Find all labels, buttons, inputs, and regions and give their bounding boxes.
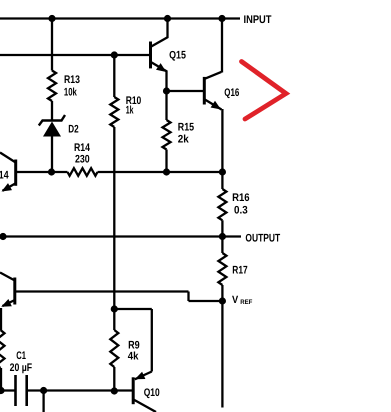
- svg-text:INPUT: INPUT: [244, 14, 272, 26]
- transistor Q14 base bar: [14, 160, 17, 186]
- node R9 top: [111, 305, 118, 312]
- transistor Q16 base bar: [203, 77, 206, 105]
- wire left resistor to bottom rail: [0, 368, 2, 391]
- resistor RL (partial at left edge): [0, 330, 5, 368]
- svg-text:0.3: 0.3: [234, 205, 248, 217]
- svg-text:V: V: [232, 294, 238, 306]
- transistor Q10 collector: [134, 400, 157, 412]
- resistor R13: [48, 71, 56, 102]
- capacitor C1 left plate: [14, 375, 17, 406]
- svg-text:Q16: Q16: [224, 87, 239, 99]
- wire W5 output rail: [0, 235, 222, 237]
- transistor Q14 emitter arrow: [2, 183, 13, 191]
- transistor Q16 collector: [205, 72, 222, 79]
- wire OUTPUT node to R17: [221, 237, 223, 254]
- wire Q14 base to node: [16, 171, 68, 173]
- resistor R17: [218, 253, 226, 285]
- wire bottom rail to Q10 base: [44, 389, 134, 391]
- svg-text:C1: C1: [16, 350, 26, 362]
- resistor R10: [110, 97, 118, 127]
- transistor Q10 emitter: [135, 372, 152, 380]
- zener diode D2 anode triangle: [43, 122, 61, 137]
- wire VREF column down: [221, 301, 223, 408]
- wire R9 top node to Q10 emitter wire: [114, 308, 152, 310]
- wire W2 to Q15 base: [0, 54, 151, 56]
- wire R15 to W4: [165, 150, 167, 173]
- node INPUT on W1 at Q16 collector: [218, 15, 225, 22]
- wire Q16 emitter down to W4: [221, 109, 223, 172]
- wire Q16 base from node: [167, 90, 205, 92]
- transistor QL collector: [0, 273, 15, 281]
- node C1 right: [40, 387, 47, 394]
- transistor QL emitter arrow: [1, 299, 12, 307]
- transistor Q14 emitter: [3, 183, 16, 191]
- red chevron annotation: [242, 62, 287, 120]
- resistor R9: [110, 330, 118, 367]
- transistor Q10 base bar: [132, 377, 135, 404]
- transistor Q15 collector: [151, 37, 168, 47]
- svg-text:Q15: Q15: [169, 50, 186, 62]
- svg-text:1k: 1k: [126, 105, 134, 117]
- svg-text:R17: R17: [232, 265, 247, 277]
- wire R13 to D2: [51, 101, 53, 121]
- wire Q15 collector up to W1: [166, 19, 168, 39]
- wire R9 to bottom rail: [113, 367, 115, 391]
- node on W1 at Q15 collector: [164, 15, 171, 22]
- node on W1 at R13 column: [48, 15, 55, 22]
- svg-text:14: 14: [0, 170, 9, 182]
- node bottom rail at R9 column: [111, 387, 118, 394]
- svg-text:D2: D2: [68, 123, 78, 135]
- svg-text:R16: R16: [232, 192, 250, 204]
- wire QL base to VREF step: [15, 290, 189, 292]
- transistor Q16 emitter: [205, 99, 222, 109]
- wire node down off bottom edge: [42, 391, 44, 412]
- wire Q16 collector up to W1 INPUT node: [221, 19, 223, 73]
- transistor Q15 emitter: [151, 62, 167, 72]
- wire QL emitter to left resistor: [0, 308, 2, 330]
- resistor R16: [218, 189, 226, 220]
- node W5 left edge: [0, 233, 7, 240]
- wire R10 column upper: [113, 55, 115, 97]
- transistor QL emitter: [3, 300, 15, 306]
- wire R17 to VREF node: [221, 285, 223, 301]
- wire C1 to node: [27, 389, 44, 391]
- resistor R15: [163, 120, 171, 150]
- wire node to R15: [165, 91, 167, 120]
- node W4 left at R13/D2 bottom: [48, 168, 55, 175]
- node VREF: [219, 297, 226, 304]
- wire VREF step horizontal: [189, 300, 223, 302]
- transistor QL base bar: [13, 278, 16, 305]
- svg-text:REF: REF: [240, 299, 252, 306]
- svg-text:10k: 10k: [64, 87, 78, 99]
- svg-text:R14: R14: [74, 142, 91, 154]
- transistor Q16 emitter arrow: [211, 101, 221, 110]
- resistor R14: [68, 168, 98, 176]
- node bottom rail left edge: [0, 387, 5, 394]
- svg-text:4k: 4k: [128, 351, 139, 363]
- svg-text:R13: R13: [64, 74, 80, 86]
- node on W2 at R10 column: [111, 51, 118, 58]
- node OUTPUT: [219, 233, 226, 240]
- svg-text:R15: R15: [178, 121, 194, 133]
- wire R13 column upper: [51, 19, 53, 71]
- wire OUTPUT stub: [222, 235, 241, 237]
- svg-text:2k: 2k: [178, 133, 190, 145]
- svg-text:230: 230: [75, 154, 90, 166]
- transistor Q14 collector: [0, 153, 16, 163]
- node Q16 base wire: [163, 87, 170, 94]
- wire Q15 emitter down to node: [165, 71, 167, 92]
- wire Q10 emitter vertical: [151, 309, 153, 372]
- wire R14 to Q16 emitter column: [98, 171, 223, 173]
- wire W1 top input rail: [0, 17, 240, 19]
- node W4 at R15 bottom: [163, 168, 170, 175]
- transistor Q15 base bar: [149, 42, 152, 69]
- svg-text:Q10: Q10: [144, 387, 160, 399]
- wire R10 column lower (crosses W4 and W5): [113, 127, 115, 309]
- zener diode D2 cathode bar: [39, 115, 65, 126]
- wire R9 column upper: [113, 309, 115, 330]
- wire R16 to OUTPUT node: [221, 220, 223, 236]
- wire bottom rail to C1: [0, 389, 16, 391]
- node W4 at Q16 emitter column: [219, 168, 226, 175]
- capacitor C1 right plate: [25, 375, 28, 406]
- wire VREF step vertical: [187, 292, 189, 302]
- transistor Q15 emitter arrow: [156, 63, 166, 72]
- transistor Q10 emitter arrow (PNP): [135, 372, 146, 380]
- wire D2 to W4: [51, 135, 53, 172]
- svg-text:20 µF: 20 µF: [10, 362, 33, 374]
- svg-text:OUTPUT: OUTPUT: [245, 232, 280, 244]
- wire W4 node to R16: [221, 172, 223, 189]
